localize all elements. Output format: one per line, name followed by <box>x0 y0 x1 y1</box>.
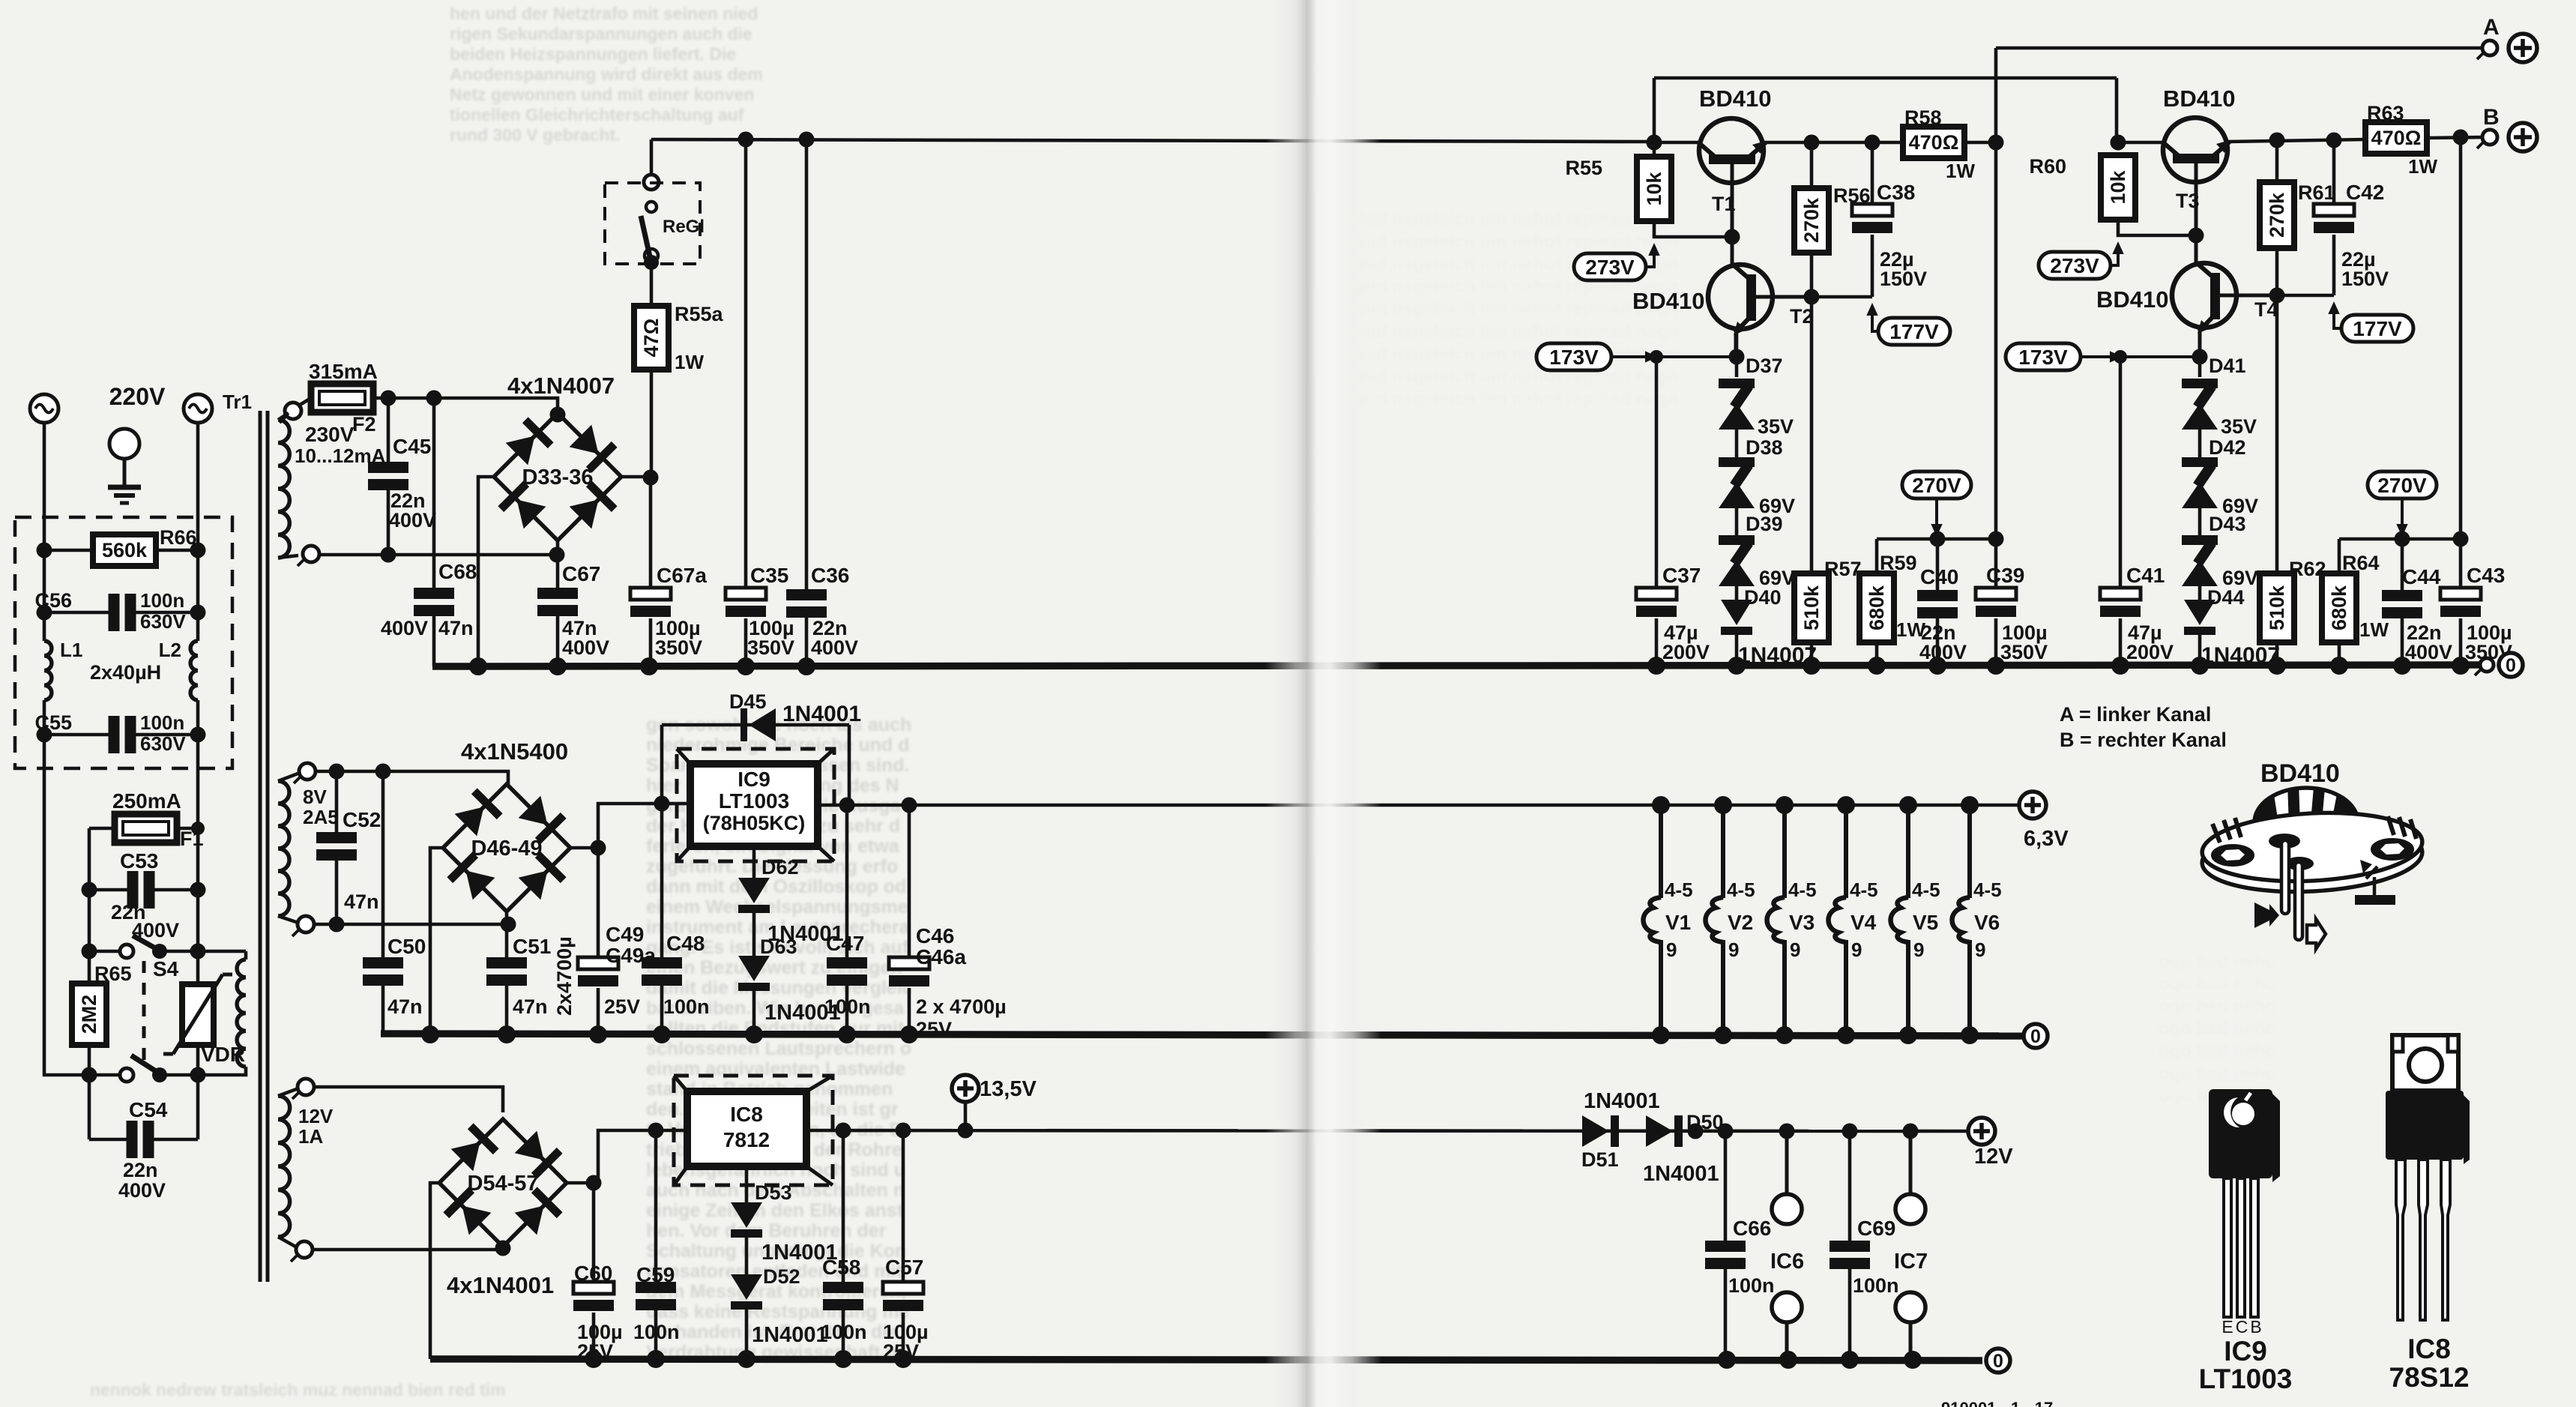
svg-text:220V: 220V <box>109 383 166 410</box>
tube heater V6 <box>1952 805 2002 1036</box>
wire C52 bottom stub <box>335 861 339 924</box>
tube heater V2 <box>1706 805 1755 1036</box>
node bbus C58 <box>834 1350 852 1368</box>
svg-text:177V: 177V <box>2353 317 2402 340</box>
pointer 270V B <box>2401 498 2404 532</box>
transformer primary winding section <box>237 959 246 1067</box>
svg-text:Anodenspannung wird direkt aus: Anodenspannung wird direkt aus dem <box>450 64 763 84</box>
terminal 230V winding bottom <box>298 546 319 566</box>
node bridge top <box>550 407 566 423</box>
wire 12V coil top stub <box>278 1088 298 1096</box>
svg-text:A: A <box>2483 15 2500 40</box>
svg-text:hen. Vor dem Beruhren der: hen. Vor dem Beruhren der <box>646 1220 887 1241</box>
svg-text:BD410: BD410 <box>2260 759 2340 788</box>
node S4a left <box>82 944 97 959</box>
svg-text:unid nsgeleich tim nehot repma: unid nsgeleich tim nehot repmad negn <box>1349 389 1679 409</box>
node bbus IC7 <box>1904 1351 1922 1369</box>
wire C41 bottom <box>2119 618 2123 666</box>
node mbus C49 <box>589 1025 607 1043</box>
svg-text:unid nsgeleich tim nehot repma: unid nsgeleich tim nehot repmad negn <box>1349 232 1679 252</box>
resistor R58 <box>1903 127 1964 158</box>
wire D52 to bus <box>745 1308 749 1359</box>
capacitor C45 <box>368 462 408 490</box>
node bus C36 <box>797 657 815 675</box>
svg-text:V3: V3 <box>1789 911 1815 934</box>
transistor T3 BD410 <box>2162 118 2230 235</box>
svg-text:4-5: 4-5 <box>1912 879 1940 901</box>
svg-text:IC9: IC9 <box>2224 1336 2267 1367</box>
capacitor C68 <box>414 588 454 616</box>
wire bridge D33-36 minus to bus <box>478 477 494 666</box>
svg-text:D39: D39 <box>1746 513 1783 535</box>
wire D62 to D63 <box>752 912 756 956</box>
wire C40 bottom <box>1936 618 1940 666</box>
capacitor C40 <box>1917 590 1958 618</box>
node 0V V3 <box>1776 1026 1794 1044</box>
svg-text:100n: 100n <box>140 711 184 734</box>
capacitor C48 <box>642 957 682 986</box>
svg-text:200V: 200V <box>1662 641 1710 663</box>
node R61 top <box>2269 133 2285 148</box>
capacitor C42 <box>2314 204 2354 233</box>
diode D51 1N4001 <box>1582 1115 1619 1147</box>
diode D44 1N4007 <box>2184 600 2215 635</box>
terminal 0 HT small <box>2475 658 2494 675</box>
terminal AC L (mains phase) <box>30 394 58 423</box>
svg-text:350V: 350V <box>655 636 702 659</box>
node R56 top <box>1804 135 1820 151</box>
wire C66 bottom <box>1724 1269 1728 1361</box>
terminal A plus <box>2509 34 2537 62</box>
resistor R65 <box>72 983 106 1045</box>
node C55 right <box>190 727 206 743</box>
node IC6 top <box>1779 1124 1795 1139</box>
svg-text:oqo bsd nehc: oqo bsd nehc <box>2159 974 2275 994</box>
node 6.3V V2 <box>1714 796 1732 814</box>
wire C60 bottom <box>592 1313 596 1359</box>
diode D45 1N4001 <box>740 708 776 741</box>
terminal 6.3V plus <box>2019 792 2046 819</box>
callout 177V channel B <box>2341 315 2413 342</box>
wire bridge D46-49 plus <box>570 846 598 850</box>
wire R55 junction to T1 <box>1654 141 1701 145</box>
wire HT raw line <box>651 139 1654 142</box>
diode D50 1N4001 <box>1646 1115 1683 1147</box>
svg-text:270k: 270k <box>1800 197 1823 243</box>
svg-text:1W: 1W <box>2408 155 2437 178</box>
wire C47 top <box>845 805 849 957</box>
svg-text:47n: 47n <box>513 995 548 1018</box>
svg-text:47n: 47n <box>438 617 474 639</box>
node R66 left <box>37 543 52 558</box>
wire 12V return <box>313 1248 503 1252</box>
svg-text:8V: 8V <box>303 786 327 808</box>
callout 177V channel A <box>1878 318 1950 345</box>
svg-text:V6: V6 <box>1974 911 2000 934</box>
svg-text:C: C <box>2236 1317 2248 1337</box>
svg-text:315mA: 315mA <box>309 360 378 383</box>
terminal AC N (mains neutral) <box>184 394 212 423</box>
node C50 top <box>375 764 391 780</box>
wire C38 bottom stub <box>1871 235 1874 297</box>
wire bridge D54-57 plus to IC8 <box>567 1130 687 1183</box>
svg-text:nennok nedrew tratsleich muz n: nennok nedrew tratsleich muz nennad bien… <box>90 1380 506 1400</box>
wire bridge bottom to C51 <box>505 910 509 957</box>
node S4b right <box>190 1067 206 1083</box>
svg-text:BD410: BD410 <box>1632 288 1705 314</box>
svg-text:100n: 100n <box>824 995 871 1018</box>
wire C42 bottom stub <box>2332 235 2336 295</box>
wire C42 top stub <box>2332 140 2336 204</box>
node T1 base <box>1725 229 1740 245</box>
svg-text:S4: S4 <box>153 957 179 980</box>
svg-text:100n: 100n <box>663 995 710 1018</box>
wire 13.5V terminal stub <box>964 1102 968 1130</box>
svg-text:25V: 25V <box>604 995 640 1018</box>
svg-text:LT1003: LT1003 <box>719 789 789 813</box>
svg-text:C58: C58 <box>822 1256 860 1279</box>
wire R58 out <box>1964 141 1996 145</box>
terminal 8V winding top <box>294 763 316 783</box>
node bus C35 <box>737 657 755 675</box>
svg-text:IC8: IC8 <box>730 1103 763 1126</box>
node C57 top <box>896 1123 911 1139</box>
wire 230V coil top stub <box>278 413 289 420</box>
capacitor C37 <box>1636 588 1677 617</box>
node 6.3V V5 <box>1899 796 1917 814</box>
svg-text:400V: 400V <box>389 509 436 531</box>
svg-text:V2: V2 <box>1728 911 1753 934</box>
wire C44 bottom <box>2401 618 2404 666</box>
svg-text:B: B <box>2250 1317 2261 1337</box>
node B 270V <box>2453 531 2469 547</box>
svg-text:1A: 1A <box>298 1125 323 1148</box>
node bus C67 <box>549 657 567 675</box>
wire D38-D39 <box>1735 508 1739 535</box>
bus 0V HT <box>432 665 2487 666</box>
node bridge D54-57 AC2 <box>495 1241 511 1256</box>
wire R55a to bridge plus node <box>650 370 654 477</box>
svg-text:IC7: IC7 <box>1894 1250 1928 1274</box>
wire C45 top <box>387 398 390 462</box>
svg-text:unid nsgeleich tim nehot repma: unid nsgeleich tim nehot repmad negn <box>1349 209 1679 229</box>
wire D45 right leg <box>848 725 851 804</box>
svg-text:173V: 173V <box>2018 346 2068 369</box>
svg-text:R63: R63 <box>2367 102 2404 124</box>
svg-text:150V: 150V <box>1880 268 1927 290</box>
svg-text:2 x 4700µ: 2 x 4700µ <box>916 995 1007 1018</box>
resistor R64 <box>2322 573 2356 642</box>
node C66 top <box>1718 1124 1734 1139</box>
node bbus C57 <box>894 1350 912 1368</box>
resistor R62 <box>2260 573 2294 642</box>
svg-text:510k: 510k <box>1800 585 1823 630</box>
terminal 8V winding bottom <box>292 916 314 936</box>
svg-text:D40: D40 <box>1744 586 1782 609</box>
svg-text:BD410: BD410 <box>2096 286 2169 313</box>
svg-text:D51: D51 <box>1581 1148 1619 1171</box>
svg-text:C60: C60 <box>574 1262 612 1285</box>
wire C39 bottom <box>1994 618 1998 666</box>
node C45 bottom <box>381 547 396 563</box>
wire 270V node A <box>1877 537 1996 541</box>
wire T1 emitter line <box>1764 141 1903 145</box>
svg-text:C54: C54 <box>129 1098 168 1121</box>
diode D63 <box>738 956 770 991</box>
wire bridge bottom to C67 <box>556 539 560 588</box>
svg-text:C50: C50 <box>387 935 426 958</box>
svg-text:D52: D52 <box>763 1265 800 1288</box>
node C47 top <box>839 798 855 813</box>
svg-text:V1: V1 <box>1665 911 1691 934</box>
capacitor C36 <box>786 589 827 618</box>
capacitor C56 <box>109 594 136 631</box>
svg-text:12V: 12V <box>1974 1145 2013 1169</box>
svg-text:D45: D45 <box>729 690 767 713</box>
svg-text:D42: D42 <box>2209 436 2246 459</box>
svg-text:beiden Heizspannungen liefert.: beiden Heizspannungen liefert. Die <box>450 44 736 64</box>
svg-text:D37: D37 <box>1746 355 1783 377</box>
wire C59 bottom <box>654 1310 658 1359</box>
capacitor C38 <box>1852 204 1892 233</box>
node bridge D46-49 AC2 <box>501 917 516 933</box>
capacitor C50 <box>363 957 403 986</box>
wire R55 top stub <box>1653 142 1656 157</box>
capacitor C60 <box>573 1282 614 1311</box>
node R63 out <box>2453 130 2469 145</box>
svg-text:R66: R66 <box>160 526 197 549</box>
svg-text:BD410: BD410 <box>2163 85 2236 112</box>
resistor R56 <box>1794 188 1829 253</box>
svg-text:13,5V: 13,5V <box>980 1077 1037 1101</box>
svg-text:C59: C59 <box>636 1263 675 1286</box>
node C56 left <box>37 605 52 621</box>
wire D43-D44 <box>2198 586 2202 600</box>
node 0V V1 <box>1652 1026 1670 1044</box>
wire S4a right <box>166 950 198 953</box>
node mbus C46 <box>900 1025 918 1043</box>
svg-text:dann mit dem Oszilloskop od: dann mit dem Oszilloskop od <box>646 876 906 897</box>
wire C50 top <box>381 771 385 957</box>
svg-text:Tr1: Tr1 <box>223 391 252 413</box>
svg-text:1W: 1W <box>675 351 704 373</box>
switch S4 lower <box>120 1055 167 1082</box>
svg-text:273V: 273V <box>1585 256 1635 279</box>
svg-text:C41: C41 <box>2126 564 2165 587</box>
svg-text:B: B <box>2483 105 2500 130</box>
svg-text:1N4001: 1N4001 <box>1643 1162 1719 1186</box>
node bus C39 <box>1987 657 2005 675</box>
wire B output riser <box>2459 137 2463 588</box>
node 6.3V V4 <box>1837 796 1855 814</box>
node 0V V6 <box>1961 1026 1979 1044</box>
svg-text:9: 9 <box>1728 938 1739 961</box>
node 13.5V tap <box>958 1123 974 1139</box>
node C52 top <box>329 764 345 780</box>
svg-text:rund 300 V gebracht.: rund 300 V gebracht. <box>450 125 621 145</box>
wire 12V top to bridge D54-57 <box>314 1087 503 1112</box>
svg-text:C51: C51 <box>513 935 551 958</box>
supply pins IC6 <box>1772 1131 1802 1361</box>
svg-text:910001 - 1 - 17: 910001 - 1 - 17 <box>1941 1399 2053 1407</box>
wire F1 output down <box>88 828 91 1139</box>
wire D63 to bus <box>752 989 756 1034</box>
decor: none <box>450 4 763 145</box>
wire C53 right <box>154 888 198 892</box>
node 0V V2 <box>1714 1026 1732 1044</box>
svg-text:470Ω: 470Ω <box>1909 131 1959 154</box>
svg-text:12V: 12V <box>298 1105 334 1127</box>
svg-text:E: E <box>2221 1317 2233 1337</box>
node mbus D63 <box>745 1025 763 1043</box>
wire C47 bottom <box>845 986 849 1034</box>
package drawing IC8 TO-220 <box>2386 1035 2470 1320</box>
svg-text:4x1N4007: 4x1N4007 <box>507 373 615 399</box>
wire C35 top <box>744 139 748 588</box>
svg-text:D43: D43 <box>2209 513 2246 535</box>
capacitor C69 <box>1830 1241 1870 1269</box>
wire C49 bottom <box>597 988 600 1034</box>
resistor R55a <box>634 306 669 370</box>
capacitor C44 <box>2382 590 2422 618</box>
wire A output riser <box>1994 48 1998 588</box>
svg-text:oqo bsd nehc: oqo bsd nehc <box>2159 1064 2275 1084</box>
wire C36 top <box>805 139 809 589</box>
pointer 270V A <box>1935 498 1938 532</box>
capacitor C43 <box>2440 588 2481 617</box>
svg-text:400V: 400V <box>118 1179 166 1202</box>
node T3 base <box>2189 228 2204 244</box>
capacitor C67a <box>630 588 671 617</box>
regulator IC8 7812 <box>674 1076 833 1185</box>
svg-text:R61: R61 <box>2298 181 2335 204</box>
wire D40 to bus <box>1735 633 1739 666</box>
node bbus D52 <box>737 1350 755 1368</box>
svg-text:680k: 680k <box>1865 585 1888 630</box>
node bus R62 <box>2268 657 2286 675</box>
svg-text:0: 0 <box>2030 1026 2041 1047</box>
svg-text:1N4001: 1N4001 <box>782 702 861 726</box>
pointer 177V B <box>2334 306 2341 328</box>
node C59 top <box>648 1123 664 1139</box>
resistor R63 <box>2365 122 2427 154</box>
svg-text:C49: C49 <box>606 923 644 946</box>
wire C51 bottom <box>505 986 509 1034</box>
wire A rail <box>1996 46 2492 50</box>
diode D62 <box>738 878 770 913</box>
inductor L1 <box>44 641 52 700</box>
wire primary tap top <box>198 950 246 953</box>
svg-text:1N4001: 1N4001 <box>752 1323 828 1347</box>
node T2 base R56 <box>1804 289 1820 305</box>
wire 8V top to bridge D46-49 <box>316 771 508 786</box>
wire R62 to bus <box>2275 642 2279 666</box>
wire F1 right <box>177 827 198 831</box>
terminal 230V winding top <box>280 403 301 423</box>
capacitor C47 <box>827 957 867 986</box>
wire S4a left <box>89 950 120 953</box>
supply pins IC7 <box>1895 1131 1925 1361</box>
svg-text:T3: T3 <box>2176 190 2200 212</box>
wire C37 top <box>1655 357 1659 588</box>
wire C54 left <box>89 1138 127 1142</box>
svg-text:oqo bsd nehc: oqo bsd nehc <box>2159 1041 2275 1061</box>
capacitor C54 <box>127 1121 154 1158</box>
tube heater V1 <box>1644 805 1693 1036</box>
node bus C44 <box>2393 657 2411 675</box>
svg-text:schlossenen Lautsprechern o: schlossenen Lautsprechern o <box>646 1038 911 1059</box>
svg-text:D53: D53 <box>755 1181 792 1204</box>
node C60 top <box>586 1175 602 1191</box>
svg-text:177V: 177V <box>1889 320 1939 343</box>
wire D45 bypass <box>662 723 849 727</box>
capacitor C41 <box>2100 588 2141 617</box>
svg-text:LT1003: LT1003 <box>2199 1364 2293 1394</box>
svg-text:9: 9 <box>1975 938 1985 961</box>
svg-text:9: 9 <box>1851 938 1862 961</box>
wire C52 top stub <box>335 771 339 832</box>
wire C69 top <box>1848 1131 1852 1241</box>
resistor R60 <box>2101 155 2135 220</box>
svg-text:10k: 10k <box>2107 169 2129 204</box>
fuse F1 <box>115 814 177 843</box>
svg-text:173V: 173V <box>1549 346 1599 369</box>
svg-text:einem Wechselspannungsme: einem Wechselspannungsme <box>646 897 908 918</box>
svg-text:L2: L2 <box>159 639 181 661</box>
wire D37-D38 <box>1735 428 1739 457</box>
node C46 top <box>902 798 917 813</box>
node C55 left <box>37 727 52 743</box>
wire C67 bottom <box>556 616 560 666</box>
wire raw feed to channel B <box>1654 76 2117 80</box>
node 6.3V V6 <box>1961 796 1979 814</box>
node bus R59 <box>1868 657 1886 675</box>
wire riser to ch2 feed <box>1653 78 1656 142</box>
terminal B <box>2477 130 2497 148</box>
node 0V V5 <box>1899 1026 1917 1044</box>
node mbus C51 <box>498 1025 516 1043</box>
svg-text:630V: 630V <box>140 732 186 755</box>
wire C45 bottom <box>387 490 390 555</box>
node C37 tap <box>1650 350 1663 364</box>
wire C59 top <box>654 1130 658 1282</box>
wire C69 bottom <box>1848 1269 1852 1361</box>
varistor VDR <box>163 974 232 1054</box>
node C35 top <box>738 132 754 148</box>
diode D40 1N4007 <box>1721 600 1752 635</box>
svg-text:4x1N5400: 4x1N5400 <box>461 738 568 765</box>
wire C53 left <box>89 888 127 892</box>
bus 0V 12V <box>430 1359 1982 1361</box>
wire C48 bottom <box>660 986 664 1034</box>
node mbus bridge minus <box>421 1025 439 1043</box>
svg-text:47n: 47n <box>387 995 423 1018</box>
svg-text:273V: 273V <box>2050 254 2099 277</box>
diode D52 <box>731 1274 762 1310</box>
svg-text:2A5: 2A5 <box>303 806 339 828</box>
svg-text:47Ω: 47Ω <box>640 319 663 358</box>
svg-text:BD410: BD410 <box>1699 85 1772 112</box>
wire R60 bottom to T3 base <box>2118 220 2196 235</box>
node bbus C69 <box>1841 1351 1859 1369</box>
callout 270V channel B <box>2368 471 2437 498</box>
svg-text:47n: 47n <box>344 891 379 913</box>
node C40 top <box>1930 531 1946 547</box>
wire bridge D46-49 minus to bus <box>430 848 443 1034</box>
wire 270V node B <box>2339 537 2461 541</box>
capacitor C58 <box>823 1282 863 1310</box>
capacitor C57 <box>883 1282 923 1311</box>
